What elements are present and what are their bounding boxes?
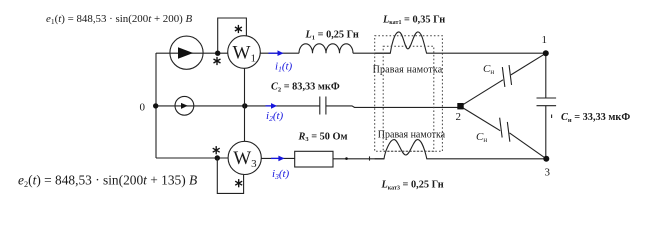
capacitor Cn between 2 and 3: [500, 118, 503, 138]
wire: middle branch from node 0: [156, 105, 320, 107]
wattmeter W3: [228, 141, 261, 174]
capacitor Cn between 2 and 1: [502, 67, 505, 87]
svg-text:e1(t) = 848,53 · sin(200t + 20: e1(t) = 848,53 · sin(200t + 200) В: [46, 13, 193, 26]
svg-text:e2(t) = 848,53 · sin(200t + 13: e2(t) = 848,53 · sin(200t + 135) В: [18, 173, 197, 189]
node 2: [457, 103, 463, 109]
inductor winding Lkat1: [375, 32, 443, 53]
current arrow i3: [271, 157, 279, 159]
wire: W1 voltage-coil loop: [218, 18, 247, 53]
junction blob on bottom wire: [345, 157, 348, 160]
dotted core box inner: [383, 46, 434, 151]
svg-text:Cн = 33,33 мкФ: Cн = 33,33 мкФ: [561, 112, 630, 124]
capacitor C2: [319, 97, 321, 115]
current arrow i1: [269, 52, 279, 54]
source e1: [170, 36, 203, 69]
wire: L1 to winding 1: [353, 52, 390, 54]
node 3: [543, 156, 549, 162]
svg-text:1: 1: [542, 34, 548, 46]
wire: R3 to winding 3: [333, 158, 384, 160]
svg-text:Правая намотка: Правая намотка: [373, 65, 443, 76]
asterisk W1 junction: [213, 25, 243, 187]
node: junction middle / W-branch vertical: [242, 103, 247, 108]
wire: bottom branch from node 0: [156, 157, 228, 159]
svg-text:i3(t): i3(t): [272, 168, 290, 181]
dotted core box outer: [375, 36, 443, 152]
wire: winding 1 to node 1: [443, 52, 546, 54]
resistor R3: [295, 151, 333, 167]
svg-text:Cн: Cн: [476, 131, 487, 144]
wire: C2 to node 2: [326, 106, 459, 108]
current arrow i2: [266, 105, 273, 107]
wire: W3 to R3: [261, 157, 294, 159]
wire: diagonal node2 to node1: [461, 80, 504, 106]
wire: top branch phase 1: [156, 52, 228, 54]
inductor winding Lkat3: [375, 140, 443, 159]
svg-text:R3 = 50 Ом: R3 = 50 Ом: [298, 131, 348, 143]
svg-text:i1(t): i1(t): [275, 61, 293, 74]
svg-text:L1 = 0,25 Гн: L1 = 0,25 Гн: [305, 30, 359, 42]
wire: W1 to L1: [260, 52, 299, 54]
svg-text:Lкат3 = 0,25 Гн: Lкат3 = 0,25 Гн: [381, 180, 444, 192]
tick mark right of Cn13: [551, 115, 553, 119]
svg-text:Правая намотка: Правая намотка: [378, 129, 446, 140]
wire: diagonal node2 to node3: [461, 106, 501, 130]
wire: vertical between W1 and W3: [244, 68, 246, 141]
asterisk W3 bottom: [235, 179, 242, 187]
svg-text:2: 2: [456, 111, 462, 123]
inductor L1: [299, 44, 353, 53]
wire: winding 3 to node 3: [443, 158, 546, 160]
node: junction at W1 input: [215, 51, 220, 56]
svg-text:3: 3: [545, 167, 551, 179]
svg-text:C2 = 83,33 мкФ: C2 = 83,33 мкФ: [271, 82, 340, 94]
svg-text:0: 0: [140, 102, 146, 114]
node 1: [543, 50, 549, 56]
node: junction at W3 input: [215, 155, 220, 160]
op wattmeter W1: [228, 36, 261, 69]
wire: left vertical bus from node 0 area: [155, 53, 157, 158]
source e2 (middle): [175, 96, 194, 115]
capacitor Cn between 1 and 3: [537, 97, 557, 99]
node 0 junction: [153, 103, 158, 108]
wire: capacitor to node 3: [545, 106, 547, 159]
svg-text:Lкат1 = 0,35 Гн: Lкат1 = 0,35 Гн: [382, 14, 445, 26]
wire: W3 voltage-coil loop: [217, 158, 243, 193]
wire: node1 to capacitor Cn13: [545, 53, 547, 98]
svg-text:Cн: Cн: [483, 63, 494, 76]
asterisk W1 top: [235, 25, 242, 33]
tick mark on bottom wire before winding: [369, 156, 371, 160]
asterisk W3 junction: [213, 146, 220, 154]
svg-text:i2(t): i2(t): [266, 110, 284, 123]
